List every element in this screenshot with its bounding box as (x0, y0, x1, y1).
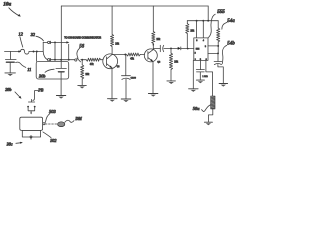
svg-text:503: 503 (49, 109, 57, 114)
svg-text:56: 56 (79, 45, 84, 50)
svg-text:47k: 47k (90, 64, 95, 66)
svg-text:10k: 10k (190, 30, 195, 32)
svg-text:1: 1 (195, 59, 196, 61)
svg-text:12: 12 (18, 32, 23, 37)
svg-text:11: 11 (27, 67, 31, 72)
svg-text:8: 8 (196, 40, 197, 42)
svg-text:58a: 58a (193, 106, 201, 111)
svg-text:54a: 54a (227, 19, 235, 24)
svg-text:38c: 38c (7, 141, 13, 146)
svg-text:10k: 10k (174, 62, 179, 64)
svg-text:32: 32 (31, 32, 36, 37)
svg-text:2: 2 (195, 52, 196, 54)
svg-text:54b: 54b (227, 41, 235, 46)
svg-text:38b: 38b (5, 87, 11, 92)
svg-text:C100: C100 (131, 77, 137, 79)
svg-text:DM: DM (74, 116, 82, 121)
svg-text:4: 4 (203, 40, 204, 42)
svg-text:555: 555 (217, 9, 225, 15)
svg-text:10a: 10a (3, 2, 11, 8)
svg-text:502: 502 (50, 138, 56, 143)
svg-text:10k: 10k (156, 39, 161, 41)
svg-text:TO ON-BOARD COMMUNICATOR: TO ON-BOARD COMMUNICATOR (64, 36, 101, 39)
svg-text:PB: PB (37, 87, 44, 92)
svg-text:3: 3 (205, 46, 206, 48)
svg-text:10k: 10k (115, 43, 120, 45)
svg-text:Q2: Q2 (157, 61, 161, 63)
svg-text:10k: 10k (85, 74, 90, 76)
svg-text:30b: 30b (39, 73, 46, 78)
svg-text:1 MΩ: 1 MΩ (202, 76, 208, 78)
svg-text:Q1: Q1 (117, 66, 121, 68)
svg-text:555: 555 (196, 49, 200, 51)
svg-text:47k: 47k (130, 58, 135, 60)
